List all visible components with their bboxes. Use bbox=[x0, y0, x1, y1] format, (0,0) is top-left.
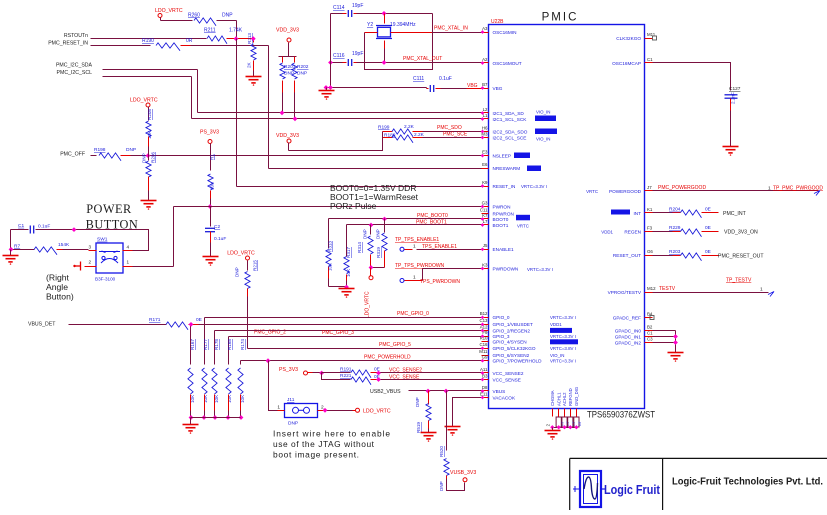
svg-text:K7: K7 bbox=[482, 213, 488, 218]
svg-text:OSC16MCAP: OSC16MCAP bbox=[612, 61, 641, 66]
svg-text:J7: J7 bbox=[647, 185, 652, 190]
svg-text:C1: C1 bbox=[647, 330, 653, 335]
svg-text:3: 3 bbox=[88, 245, 91, 250]
svg-text:C127: C127 bbox=[729, 86, 741, 92]
svg-text:GPADC_IN0: GPADC_IN0 bbox=[615, 329, 642, 334]
svg-text:PORz Pulse: PORz Pulse bbox=[330, 201, 377, 211]
svg-text:TESTV: TESTV bbox=[659, 286, 676, 292]
svg-text:OSC16MIN: OSC16MIN bbox=[493, 30, 517, 35]
svg-text:DNP: DNP bbox=[284, 71, 294, 77]
svg-text:VRTC: VRTC bbox=[517, 224, 529, 229]
svg-text:ENABLE1: ENABLE1 bbox=[493, 247, 514, 252]
svg-text:Insert wire here to enable: Insert wire here to enable bbox=[273, 429, 390, 439]
svg-text:R174: R174 bbox=[240, 339, 245, 350]
svg-text:VRTC=3.3V I: VRTC=3.3V I bbox=[521, 184, 547, 189]
svg-text:C16: C16 bbox=[479, 342, 488, 347]
svg-text:NT: NT bbox=[578, 420, 582, 426]
svg-text:2: 2 bbox=[88, 260, 91, 265]
svg-text:A11: A11 bbox=[480, 367, 488, 372]
pin C16 GPIO_5/CLK32KGO bbox=[482, 348, 489, 350]
svg-text:OSC16MOUT: OSC16MOUT bbox=[493, 61, 522, 66]
pin K9 RESET_IN bbox=[482, 186, 489, 188]
svg-text:E3: E3 bbox=[482, 149, 488, 154]
pin E11 VACACOK bbox=[482, 397, 489, 399]
svg-text:C13: C13 bbox=[479, 318, 488, 323]
pin B2 GPADC_IN0 bbox=[645, 330, 653, 332]
svg-text:PMC_OFF: PMC_OFF bbox=[60, 151, 85, 157]
svg-text:R177: R177 bbox=[203, 339, 208, 350]
resistor R213 2K to ground bbox=[253, 39, 255, 43]
pin A2 OSC16MOUT bbox=[482, 62, 489, 64]
svg-text:BOOT0: BOOT0 bbox=[493, 217, 509, 222]
svg-text:GND_DIG: GND_DIG bbox=[574, 387, 579, 406]
svg-text:I2C2_SCL_SCE: I2C2_SCL_SCE bbox=[493, 135, 527, 140]
svg-text:0E: 0E bbox=[705, 249, 711, 255]
pin M11 GPIO_6/SYSEN2 bbox=[482, 355, 489, 357]
svg-text:PMC_RESET_OUT: PMC_RESET_OUT bbox=[718, 253, 764, 259]
svg-text:VRTC: VRTC bbox=[586, 189, 598, 194]
pin A11 VCC_SENSE2 bbox=[482, 372, 489, 374]
svg-text:RPWRON: RPWRON bbox=[493, 211, 514, 216]
svg-text:use of the JTAG without: use of the JTAG without bbox=[273, 439, 375, 449]
resistor R177 10K pulldown bbox=[204, 318, 206, 365]
wire PMC_RESET_IN to NRESWARM pin bbox=[268, 46, 270, 169]
svg-text:VRTC=3.3V I: VRTC=3.3V I bbox=[527, 267, 553, 272]
pin E6 NRESWARM bbox=[482, 168, 489, 170]
pin M11 CLK32KGO bbox=[645, 38, 653, 40]
svg-text:PMC_I2C_SCL: PMC_I2C_SCL bbox=[57, 70, 93, 76]
wire PMC_POWERGOOD to TP_PMC_PWRGOOD bbox=[653, 190, 819, 192]
svg-text:PMC_GPIO_0: PMC_GPIO_0 bbox=[397, 311, 429, 317]
svg-text:J11: J11 bbox=[287, 397, 295, 403]
svg-text:PMC_GPIO_5: PMC_GPIO_5 bbox=[379, 342, 411, 348]
svg-text:2.2nF: 2.2nF bbox=[731, 92, 736, 104]
svg-text:DNP: DNP bbox=[415, 397, 420, 407]
wire VACACOK to ground bbox=[453, 398, 482, 427]
svg-text:M11: M11 bbox=[479, 349, 488, 354]
OSC16MCAP to C127 bbox=[653, 63, 731, 91]
svg-text:PS_3V3: PS_3V3 bbox=[200, 130, 219, 136]
svg-text:VBUS_DET: VBUS_DET bbox=[28, 321, 56, 327]
svg-text:I2C1_SCL_SCK: I2C1_SCL_SCK bbox=[493, 117, 528, 122]
svg-text:C1: C1 bbox=[647, 57, 653, 62]
svg-text:G9: G9 bbox=[482, 355, 488, 360]
resistor R168 10K pulldown bbox=[228, 337, 230, 365]
svg-text:R201: R201 bbox=[284, 64, 296, 70]
wire RESET_IN from R211 node bbox=[236, 39, 238, 187]
power flag VUSB_3V3 bbox=[463, 478, 467, 482]
resistor R174 10K pulldown bbox=[240, 361, 242, 365]
svg-text:A3: A3 bbox=[482, 26, 488, 31]
resistor R229 0E - VDD_3V3_ON bbox=[653, 231, 673, 233]
svg-text:G6: G6 bbox=[647, 249, 653, 254]
svg-text:DNP: DNP bbox=[288, 421, 298, 427]
svg-text:R198: R198 bbox=[94, 147, 106, 153]
wire PWRON from power button bbox=[174, 206, 482, 208]
svg-text:R211: R211 bbox=[204, 28, 216, 34]
svg-text:DNP: DNP bbox=[222, 13, 233, 19]
resistor R319 DNP (BOOT0 pull-up) bbox=[384, 219, 386, 233]
svg-text:VIO_IN: VIO_IN bbox=[536, 137, 550, 142]
svg-text:U22B: U22B bbox=[491, 19, 504, 25]
svg-text:1: 1 bbox=[413, 275, 416, 281]
pin E3 NSLEEP bbox=[482, 155, 489, 157]
resistor R313 10K (BOOT0 pulldown) bbox=[328, 219, 330, 249]
wire SW1 pin1 up to PWRON row bbox=[133, 266, 174, 268]
pin G6 RESET_OUT bbox=[645, 255, 653, 257]
svg-text:K3: K3 bbox=[482, 262, 488, 267]
svg-text:REFGND: REFGND bbox=[568, 388, 573, 406]
resistor R519 DNP to ground bbox=[428, 391, 430, 405]
svg-text:R191: R191 bbox=[340, 367, 352, 373]
svg-text:PMC_POWERGOOD: PMC_POWERGOOD bbox=[658, 185, 706, 191]
resistor R260 DNP bbox=[161, 20, 193, 22]
resistors R201 DNP / R202 DNP pull-ups bbox=[279, 56, 297, 58]
svg-text:(Right: (Right bbox=[46, 273, 70, 283]
svg-text:TPS_PWRDOWN: TPS_PWRDOWN bbox=[420, 279, 460, 285]
svg-text:CLK32KGO: CLK32KGO bbox=[616, 36, 641, 41]
svg-text:SW1: SW1 bbox=[97, 237, 108, 243]
svg-text:19pF: 19pF bbox=[352, 3, 363, 9]
pin C3 GPADC_IN2 bbox=[645, 342, 653, 344]
svg-text:VCC_SENSE: VCC_SENSE bbox=[389, 374, 420, 380]
svg-text:E11: E11 bbox=[480, 391, 488, 396]
svg-text:R199: R199 bbox=[378, 125, 390, 131]
svg-text:I2C2_SDA_SDO: I2C2_SDA_SDO bbox=[493, 129, 528, 134]
svg-text:H6: H6 bbox=[482, 125, 488, 130]
svg-text:DNP: DNP bbox=[439, 481, 444, 491]
svg-text:R204: R204 bbox=[669, 207, 681, 213]
svg-text:R229: R229 bbox=[669, 225, 681, 231]
svg-text:R171: R171 bbox=[149, 317, 161, 323]
svg-text:2.2K: 2.2K bbox=[404, 124, 415, 130]
svg-text:PMIC: PMIC bbox=[542, 12, 579, 24]
svg-text:VUSB_3V3: VUSB_3V3 bbox=[450, 470, 476, 476]
resistor R204 0E - PMC_INT bbox=[653, 212, 673, 214]
svg-text:boot image present.: boot image present. bbox=[273, 450, 359, 460]
svg-text:GPIO_1/VBUSDET: GPIO_1/VBUSDET bbox=[493, 322, 534, 327]
svg-text:DNP: DNP bbox=[363, 229, 368, 239]
svg-text:GPIO_3: GPIO_3 bbox=[493, 334, 510, 339]
power tap LDO_VRTC (vertical label) bbox=[371, 267, 385, 269]
svg-text:Angle: Angle bbox=[46, 282, 68, 292]
svg-text:2K: 2K bbox=[247, 61, 252, 68]
svg-text:K1: K1 bbox=[647, 207, 653, 212]
svg-text:1: 1 bbox=[413, 244, 416, 250]
pin junction dots bbox=[481, 30, 485, 34]
svg-text:USB2_VBUS: USB2_VBUS bbox=[370, 389, 401, 395]
svg-text:R168: R168 bbox=[227, 339, 232, 350]
svg-text:10K: 10K bbox=[328, 262, 333, 271]
svg-text:B3F-3100: B3F-3100 bbox=[95, 277, 116, 282]
svg-text:19pF: 19pF bbox=[352, 51, 363, 57]
svg-text:LDO_VRTC: LDO_VRTC bbox=[130, 98, 158, 104]
wire C1 to SW1 pin4 bbox=[75, 230, 149, 251]
svg-text:PMC_SDO: PMC_SDO bbox=[437, 125, 462, 131]
svg-text:R190: R190 bbox=[142, 38, 154, 44]
svg-text:VRTC=3.3V I: VRTC=3.3V I bbox=[550, 315, 576, 320]
pin C13 GPIO_1/VBUSDET bbox=[482, 324, 489, 326]
svg-text:RSTOUTn: RSTOUTn bbox=[64, 33, 88, 39]
svg-text:VRTC=3.3V I: VRTC=3.3V I bbox=[550, 334, 576, 339]
svg-text:0.1uF: 0.1uF bbox=[38, 224, 50, 230]
pin C11 RPWRON bbox=[482, 213, 489, 215]
svg-text:POWER: POWER bbox=[86, 202, 132, 216]
svg-text:GPIO_4/SYSEN: GPIO_4/SYSEN bbox=[493, 340, 527, 345]
svg-text:DNP: DNP bbox=[297, 71, 307, 77]
svg-text:10K: 10K bbox=[210, 181, 215, 190]
svg-text:0E: 0E bbox=[705, 207, 711, 213]
svg-text:GPIO_2/REGEN2: GPIO_2/REGEN2 bbox=[493, 328, 531, 333]
resistor R317 10K (BOOT1 pulldown) bbox=[346, 225, 348, 257]
svg-text:CHGMA: CHGMA bbox=[550, 390, 555, 406]
ground (C1/R7) bbox=[10, 250, 12, 256]
svg-text:Y2: Y2 bbox=[367, 22, 373, 28]
svg-text:R319: R319 bbox=[376, 247, 381, 258]
pin H6 I2C2_SDA_SDO bbox=[482, 131, 489, 133]
svg-text:DNP: DNP bbox=[376, 229, 381, 239]
jumper J11 DNP bbox=[266, 358, 271, 363]
svg-text:B12: B12 bbox=[480, 311, 488, 316]
svg-text:R203: R203 bbox=[669, 249, 681, 255]
svg-text:K9: K9 bbox=[482, 180, 488, 185]
ground bus of crystal + C111 bbox=[330, 14, 332, 88]
svg-text:PMC_I2C_SDA: PMC_I2C_SDA bbox=[56, 63, 93, 69]
pin K7 BOOT0 bbox=[482, 218, 489, 220]
svg-text:0.1uF: 0.1uF bbox=[214, 236, 226, 242]
svg-text:1: 1 bbox=[768, 185, 771, 191]
svg-text:VDD1: VDD1 bbox=[601, 230, 613, 235]
svg-text:VBUS: VBUS bbox=[493, 389, 506, 394]
svg-text:Logic Fruit: Logic Fruit bbox=[604, 482, 661, 497]
svg-text:VDD_3V3_ON: VDD_3V3_ON bbox=[724, 230, 758, 236]
svg-text:DNP: DNP bbox=[235, 267, 240, 277]
svg-text:R208: R208 bbox=[147, 109, 152, 120]
svg-text:Logic-Fruit Technologies Pvt.: Logic-Fruit Technologies Pvt. Ltd. bbox=[672, 477, 823, 488]
resistor R206 DNP to ground bbox=[148, 156, 150, 161]
pin M12 VPROG/TESTV bbox=[645, 292, 653, 294]
svg-text:1: 1 bbox=[277, 405, 280, 411]
svg-text:1.74K: 1.74K bbox=[229, 28, 243, 34]
svg-text:D8: D8 bbox=[482, 385, 488, 390]
svg-text:R202: R202 bbox=[297, 64, 309, 70]
wire PMC_XTAL_IN bbox=[432, 14, 434, 33]
pin K3 PWRDOWN bbox=[482, 268, 489, 270]
svg-text:DNP: DNP bbox=[142, 153, 147, 163]
svg-text:PMC_XTAL_OUT: PMC_XTAL_OUT bbox=[403, 56, 442, 62]
svg-text:LDO_VRTC: LDO_VRTC bbox=[155, 8, 183, 14]
svg-text:R7: R7 bbox=[14, 243, 20, 249]
svg-text:4: 4 bbox=[127, 245, 130, 250]
pin F3 REGEN bbox=[645, 231, 653, 233]
pin J7 POWERGOOD bbox=[645, 190, 653, 192]
svg-text:R215: R215 bbox=[253, 260, 258, 271]
svg-text:B2: B2 bbox=[647, 325, 653, 330]
pin A12 GPIO_2/REGEN2 bbox=[482, 330, 489, 332]
svg-text:0R: 0R bbox=[186, 38, 193, 44]
svg-text:TP_PMC_PWRGOOD: TP_PMC_PWRGOOD bbox=[773, 186, 823, 192]
resistor R520 DNP bbox=[446, 391, 448, 451]
svg-text:R221: R221 bbox=[340, 373, 352, 379]
crystal Y2 19.394MHz bbox=[384, 14, 386, 24]
svg-text:PMC_GPIO_3: PMC_GPIO_3 bbox=[322, 330, 354, 336]
svg-text:R317: R317 bbox=[346, 247, 351, 258]
svg-text:LDO_VRTC: LDO_VRTC bbox=[227, 251, 255, 257]
svg-text:VPROG/TESTV: VPROG/TESTV bbox=[608, 290, 642, 295]
pin M3 I2C2_SCL_SCE bbox=[482, 137, 489, 139]
svg-text:VIO_IN: VIO_IN bbox=[536, 110, 550, 115]
svg-text:VCC_SENSE2: VCC_SENSE2 bbox=[493, 371, 524, 376]
svg-text:VDD_3V3: VDD_3V3 bbox=[276, 133, 299, 139]
svg-text:GPADC_IN2: GPADC_IN2 bbox=[615, 340, 642, 345]
svg-text:I2C1_SDA_SD: I2C1_SDA_SD bbox=[493, 111, 525, 116]
svg-text:ACHL1: ACHL1 bbox=[556, 392, 561, 406]
svg-text:C2: C2 bbox=[214, 224, 220, 230]
svg-text:Button): Button) bbox=[46, 292, 74, 302]
crystal side loop bbox=[365, 32, 378, 34]
pin J5 ENABLE1 bbox=[482, 249, 489, 251]
svg-text:A12: A12 bbox=[480, 324, 488, 329]
pin B7 VBG bbox=[482, 88, 489, 90]
svg-text:LDO_VRTC: LDO_VRTC bbox=[363, 408, 391, 414]
svg-text:19.394MHz: 19.394MHz bbox=[390, 22, 416, 28]
svg-text:R520: R520 bbox=[439, 446, 444, 457]
title block frame bbox=[570, 458, 827, 510]
svg-text:GPIO_7/POWERHOLD: GPIO_7/POWERHOLD bbox=[493, 359, 543, 364]
pin C1 GPADC_IN1 bbox=[645, 336, 653, 338]
pin G9 GPIO_7/POWERHOLD bbox=[482, 360, 489, 362]
GPADC_IN wires to ground bbox=[653, 330, 676, 332]
svg-text:0.1uF: 0.1uF bbox=[439, 76, 452, 82]
svg-text:R260: R260 bbox=[188, 13, 200, 19]
svg-text:R178: R178 bbox=[214, 339, 219, 350]
svg-text:LDO_VRTC: LDO_VRTC bbox=[365, 291, 371, 318]
svg-text:0E: 0E bbox=[196, 317, 202, 323]
svg-text:R314: R314 bbox=[357, 242, 362, 253]
svg-text:NRESWARM: NRESWARM bbox=[493, 166, 521, 171]
svg-text:GPIO_0: GPIO_0 bbox=[493, 315, 510, 320]
svg-text:10K: 10K bbox=[227, 394, 232, 403]
svg-text:TP_TESTV: TP_TESTV bbox=[726, 278, 752, 284]
svg-text:POWERGOOD: POWERGOOD bbox=[609, 189, 642, 194]
svg-text:R519: R519 bbox=[416, 422, 421, 433]
ground (gpio pulldowns) bbox=[191, 417, 241, 419]
resistor R167 10K pulldown bbox=[190, 325, 192, 365]
svg-text:B7: B7 bbox=[482, 82, 488, 87]
svg-text:10K: 10K bbox=[203, 394, 208, 403]
svg-text:GPADC_IN1: GPADC_IN1 bbox=[615, 334, 642, 339]
svg-text:VCC_SENSE: VCC_SENSE bbox=[493, 377, 521, 382]
svg-text:C114: C114 bbox=[333, 5, 345, 11]
pin L2 I2C1_SDA_SD bbox=[482, 112, 489, 114]
svg-text:NSLEEP: NSLEEP bbox=[493, 153, 512, 158]
svg-text:F3: F3 bbox=[647, 225, 653, 230]
pin F9 GPIO_3 bbox=[482, 336, 489, 338]
resistor R203 0E - PMC_RESET_OUT bbox=[653, 255, 673, 257]
svg-text:VRTC=3.3V I: VRTC=3.3V I bbox=[550, 359, 576, 364]
svg-text:C116: C116 bbox=[333, 53, 345, 59]
svg-text:PWRDOWN: PWRDOWN bbox=[493, 266, 519, 271]
resistor R178 10K pulldown bbox=[214, 331, 216, 365]
svg-text:TP_TPS_ENABLE1: TP_TPS_ENABLE1 bbox=[395, 237, 439, 243]
svg-text:ACHL2: ACHL2 bbox=[562, 392, 567, 406]
svg-text:M12: M12 bbox=[647, 286, 656, 291]
Logic Fruit logo bbox=[580, 471, 601, 507]
svg-text:L2: L2 bbox=[483, 107, 488, 112]
svg-text:PS_3V3: PS_3V3 bbox=[279, 367, 298, 373]
svg-text:0E: 0E bbox=[705, 225, 711, 231]
svg-text:GPADC_REF: GPADC_REF bbox=[613, 315, 641, 320]
pin A3 OSC16MIN bbox=[482, 32, 489, 34]
svg-text:154K: 154K bbox=[58, 242, 70, 248]
pin G3 PWRON bbox=[482, 206, 489, 208]
svg-text:R213: R213 bbox=[247, 33, 252, 44]
svg-text:REGEN: REGEN bbox=[624, 229, 641, 234]
svg-text:10K: 10K bbox=[147, 130, 152, 139]
svg-text:PMC_INT: PMC_INT bbox=[723, 211, 747, 217]
capacitor C2 0.1uF + ground bbox=[210, 207, 212, 227]
svg-text:VIO_IN: VIO_IN bbox=[550, 353, 564, 358]
pin B12 GPIO_0 bbox=[482, 317, 489, 319]
svg-text:TPS_ENABLE1: TPS_ENABLE1 bbox=[422, 244, 457, 250]
svg-text:C1: C1 bbox=[18, 223, 24, 229]
svg-text:PWRON: PWRON bbox=[493, 204, 511, 209]
svg-text:10K: 10K bbox=[346, 268, 351, 277]
pin D8 VBUS bbox=[482, 390, 489, 392]
pin K10 GPIO_4/SYSEN bbox=[482, 341, 489, 343]
svg-text:R1: R1 bbox=[210, 154, 215, 160]
svg-text:C3: C3 bbox=[647, 336, 653, 341]
right angle button connector mark bbox=[74, 262, 81, 271]
pin C1 OSC16MCAP bbox=[645, 62, 653, 64]
ground (boot pulldowns) bbox=[329, 286, 347, 288]
pin L1 I2C1_SCL_SCK bbox=[482, 118, 489, 120]
svg-text:INT: INT bbox=[633, 211, 641, 216]
svg-text:C111: C111 bbox=[413, 76, 424, 82]
resistor R190 0R on PMC_RESET_IN bbox=[91, 45, 151, 47]
svg-text:E6: E6 bbox=[482, 162, 488, 167]
svg-text:C11: C11 bbox=[480, 207, 488, 212]
svg-text:PMC_XTAL_IN: PMC_XTAL_IN bbox=[434, 26, 468, 32]
svg-text:G3: G3 bbox=[482, 200, 488, 205]
svg-text:DNP: DNP bbox=[126, 147, 136, 153]
svg-text:VCC_SENSE2: VCC_SENSE2 bbox=[389, 367, 422, 373]
svg-text:R313: R313 bbox=[328, 241, 333, 252]
svg-text:1: 1 bbox=[760, 286, 763, 292]
pin B4 GPADC_REF bbox=[645, 317, 653, 319]
svg-text:A2: A2 bbox=[482, 57, 488, 62]
svg-text:R167: R167 bbox=[190, 339, 195, 350]
svg-text:VACACOK: VACACOK bbox=[493, 395, 516, 400]
svg-text:RESET_IN: RESET_IN bbox=[493, 184, 516, 189]
pin B3 VCC_SENSE bbox=[482, 379, 489, 381]
svg-text:1: 1 bbox=[127, 260, 130, 265]
svg-text:VDD1: VDD1 bbox=[550, 322, 562, 327]
svg-text:GPIO_6/SYSEN2: GPIO_6/SYSEN2 bbox=[493, 353, 530, 358]
svg-text:PMC_SCE: PMC_SCE bbox=[443, 131, 468, 137]
svg-text:J5: J5 bbox=[483, 243, 488, 248]
svg-text:PMC_POWERHOLD: PMC_POWERHOLD bbox=[364, 355, 411, 361]
PMIC U22B main IC box bbox=[489, 25, 645, 409]
svg-text:VDD_3V3: VDD_3V3 bbox=[276, 28, 299, 34]
pin K1 INT bbox=[645, 212, 653, 214]
svg-text:VRTC=3.8V I: VRTC=3.8V I bbox=[550, 346, 576, 351]
svg-text:TPS6590376ZWST: TPS6590376ZWST bbox=[587, 410, 655, 420]
svg-text:R206: R206 bbox=[151, 152, 156, 163]
svg-text:RESET_OUT: RESET_OUT bbox=[613, 253, 641, 258]
svg-text:PMC_RESET_IN: PMC_RESET_IN bbox=[48, 41, 88, 47]
resistor R314 DNP (BOOT1 pull-up) bbox=[370, 225, 372, 235]
